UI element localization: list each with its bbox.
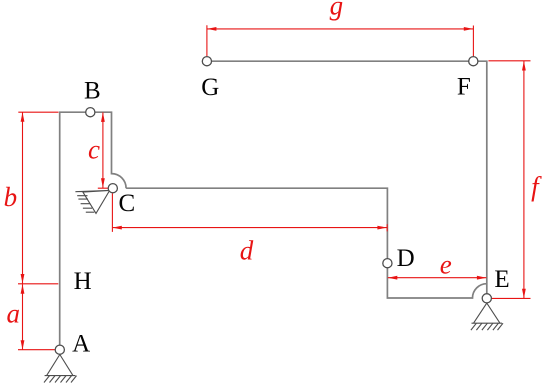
svg-text:C: C	[119, 190, 136, 217]
svg-text:D: D	[397, 245, 415, 272]
svg-text:c: c	[88, 135, 100, 165]
svg-text:A: A	[72, 330, 90, 357]
svg-text:F: F	[457, 73, 471, 100]
dimension e	[388, 276, 487, 280]
svg-text:d: d	[240, 236, 254, 266]
svg-text:H: H	[74, 268, 92, 295]
pin joint E	[482, 294, 491, 303]
pin joint F	[469, 57, 478, 66]
link GFE (member G-F-E)	[207, 61, 487, 298]
link CDE (member C-D-E)	[126, 188, 487, 298]
fixed support E	[471, 303, 503, 330]
fixed support C	[75, 190, 109, 213]
dimension a	[18, 284, 55, 350]
svg-text:b: b	[4, 182, 18, 212]
dimension b	[18, 112, 58, 283]
svg-text:B: B	[84, 77, 101, 104]
pin joint B	[86, 108, 95, 117]
dimension g	[207, 25, 474, 56]
svg-text:G: G	[201, 74, 219, 101]
svg-text:a: a	[6, 299, 20, 329]
fixed support A	[44, 355, 77, 383]
dimension c	[98, 112, 110, 188]
svg-text:e: e	[440, 250, 452, 280]
pin joint G	[202, 57, 211, 66]
pin joint D	[383, 259, 392, 268]
pin joint A	[55, 345, 64, 354]
link ABC (member A-B-C)	[60, 112, 126, 345]
pin joint C	[108, 184, 117, 193]
svg-text:f: f	[531, 172, 542, 202]
node H tick line	[18, 283, 58, 285]
dimension f	[488, 61, 530, 299]
dimension d	[112, 193, 387, 232]
svg-text:E: E	[494, 266, 509, 293]
svg-text:g: g	[330, 0, 344, 20]
